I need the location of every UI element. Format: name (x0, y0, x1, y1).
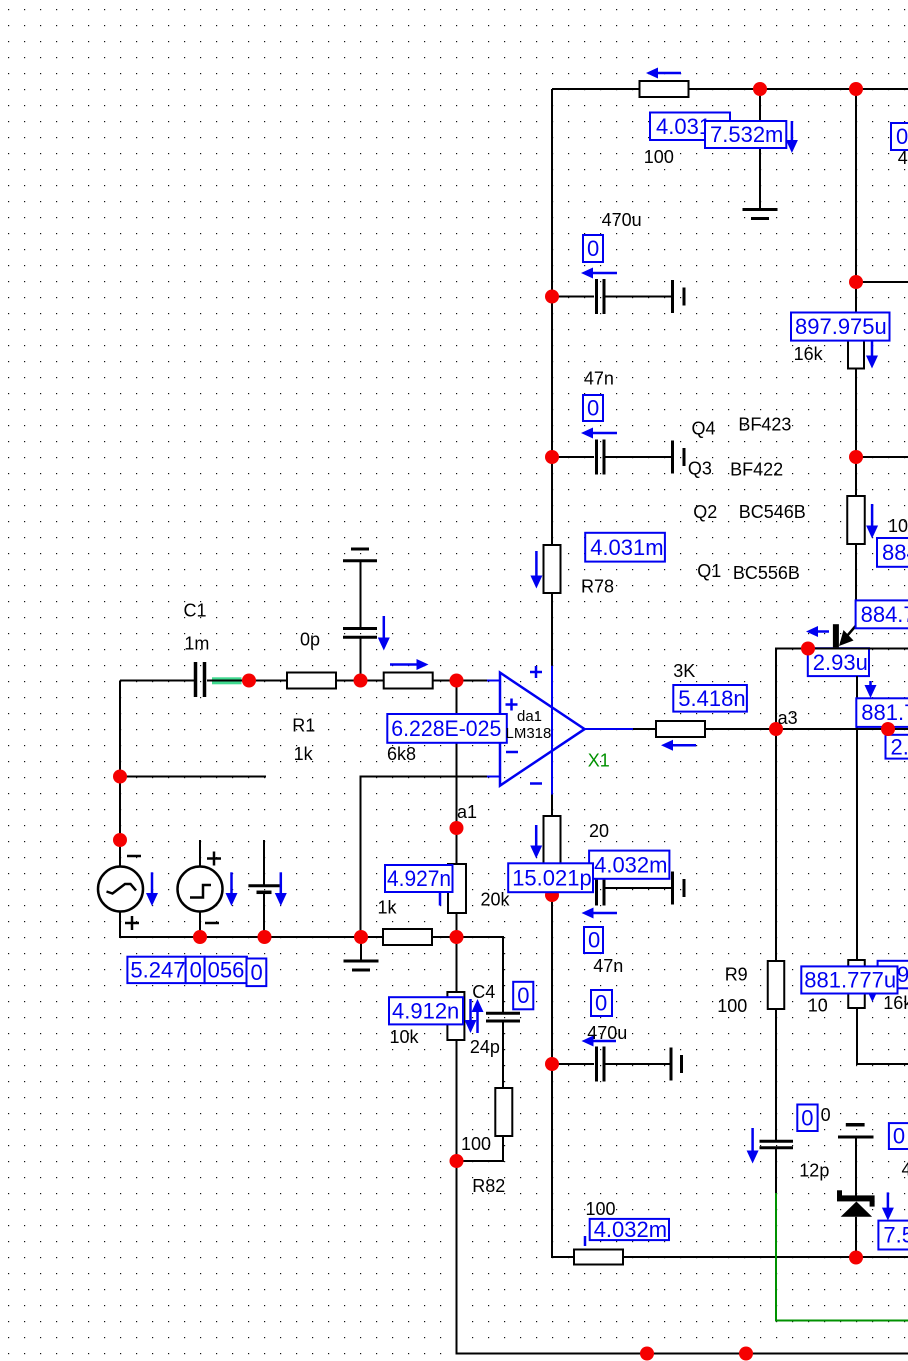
current arrow (zener) (882, 1192, 894, 1220)
value box 884.7 (856, 600, 908, 628)
capacitor C9 12p (760, 1141, 794, 1148)
svg-text:3K: 3K (673, 661, 695, 681)
value box 897.975u (791, 313, 890, 341)
wire top rail (552, 88, 908, 90)
value box 5.418n (673, 685, 747, 712)
wire step source bottom (199, 911, 201, 937)
capacitor C10 47u (right) (838, 1125, 874, 1196)
svg-text:6k8: 6k8 (387, 744, 416, 764)
wire inverting input row (361, 777, 488, 938)
current marker (4.927n) (439, 893, 442, 906)
value box 0 (V2) (186, 957, 205, 983)
svg-text:BF422: BF422 (730, 460, 783, 480)
svg-text:4.912n: 4.912n (392, 998, 459, 1023)
junction (647,1353) (640, 1347, 654, 1361)
wire 0p cap to input row (360, 639, 362, 681)
svg-text:1k: 1k (294, 744, 314, 764)
svg-text:X1: X1 (588, 751, 610, 771)
current arrow (V2) (226, 872, 238, 906)
wire middle column R78 to op-amp (551, 593, 553, 666)
current arrow (R78) (530, 551, 542, 589)
junction node 47n lower (under box) (545, 888, 559, 902)
wire node a to R1 (249, 680, 287, 682)
source V1 sine (98, 856, 143, 930)
wire R9 to 12p cap (775, 1008, 777, 1140)
value box 6.228E-025 (387, 714, 507, 743)
wire 6k8 to op-amp noninverting input (433, 680, 487, 682)
svg-text:881.777u: 881.777u (804, 968, 896, 993)
svg-text:R78: R78 (581, 577, 614, 597)
svg-text:16k: 16k (883, 993, 908, 1013)
wire C1 to node a (207, 680, 249, 682)
current arrow (top 100 resistor) (646, 68, 681, 79)
svg-text:47n: 47n (584, 369, 614, 389)
value box 4.032m (bottom) (590, 1217, 669, 1242)
svg-text:6.228E-025: 6.228E-025 (391, 716, 501, 741)
value box 0 (47n upper) (583, 395, 603, 421)
wire middle column to bottom resistor (552, 1064, 574, 1257)
wire step source stub top (199, 840, 201, 866)
junction (200,937) (193, 930, 207, 944)
current arrow (16k right) (866, 341, 878, 369)
svg-text:897.975u: 897.975u (795, 314, 887, 339)
current arrow (7.532m) (786, 121, 798, 153)
resistor R4 3K (656, 721, 705, 737)
svg-text:R82: R82 (472, 1176, 505, 1196)
value box 0 (V3) (247, 959, 267, 987)
wire battery bottom (263, 893, 265, 937)
svg-text:0: 0 (893, 1124, 905, 1149)
svg-text:12p: 12p (799, 1161, 829, 1181)
svg-text:100: 100 (586, 1199, 616, 1219)
junction (856,89) (849, 82, 863, 96)
wire 10k to bottom rail (457, 1040, 908, 1354)
junction (457,1161) (450, 1154, 464, 1168)
svg-text:881.77: 881.77 (861, 700, 908, 725)
svg-text:100: 100 (717, 996, 747, 1016)
svg-text:0: 0 (517, 983, 529, 1008)
value box 0 (top right) (891, 123, 908, 150)
transistor Q1 BC556B (symbol) (833, 624, 856, 647)
svg-text:R9: R9 (725, 965, 748, 985)
value box 0 (47u right) (889, 1123, 908, 1149)
svg-text:Q4: Q4 (692, 419, 716, 439)
junction node 470u upper (545, 290, 559, 304)
current arrow (V3) (275, 872, 287, 906)
ground (top) (743, 210, 778, 219)
wire a1 column to 10k (456, 937, 458, 992)
svg-text:0: 0 (190, 958, 202, 983)
ground (bottom) (344, 961, 379, 970)
svg-text:R1: R1 (292, 716, 315, 736)
svg-text:7.532m: 7.532m (710, 122, 783, 147)
svg-text:0: 0 (587, 396, 599, 421)
svg-text:056: 056 (208, 958, 245, 983)
wire a3 column to R9 (775, 729, 777, 961)
junction node b (354, 674, 368, 688)
svg-text:884.7: 884.7 (882, 540, 908, 565)
wire ground branch top (x=760) (759, 89, 761, 209)
wire right column below 10R to transistor (855, 543, 857, 626)
svg-text:0: 0 (587, 236, 599, 261)
junction (265,937) (258, 930, 272, 944)
svg-text:4.927n: 4.927n (387, 866, 451, 891)
svg-text:C4: C4 (472, 982, 495, 1002)
capacitor C4 24p (486, 1013, 520, 1021)
resistor R5 100 (bottom) (574, 1250, 623, 1265)
value box 7.5 (zener) (878, 1221, 908, 1250)
svg-text:1m: 1m (184, 634, 209, 654)
resistor R8 10k (447, 992, 464, 1040)
junction node a (242, 674, 256, 688)
svg-text:da1: da1 (517, 708, 542, 725)
wire middle column upper (x=552) (551, 89, 553, 545)
current arrow (6k8) (390, 659, 429, 670)
current arrow (881.7) (865, 681, 877, 698)
op-amp X1 M318 (487, 666, 633, 795)
wire right branch y=282 (856, 281, 908, 283)
svg-text:93: 93 (897, 962, 908, 987)
current arrow (C4 down) (465, 999, 477, 1033)
svg-text:20: 20 (589, 821, 609, 841)
svg-text:4.031: 4.031 (656, 114, 711, 139)
current arrow (10 right) (866, 504, 878, 539)
svg-text:1k: 1k (378, 898, 398, 918)
svg-text:20k: 20k (481, 890, 511, 910)
resistor R78 20 (upper) (544, 545, 561, 593)
wire right branch y=457 (856, 456, 908, 458)
wire op-amp output row (633, 728, 908, 730)
junction (856,282) (849, 275, 863, 289)
svg-text:0: 0 (821, 1105, 831, 1125)
svg-text:15.021p: 15.021p (512, 865, 592, 890)
value box 4.032m (47n lower) (589, 851, 669, 879)
diode D1 zener (837, 1190, 875, 1257)
svg-text:BC556B: BC556B (733, 563, 800, 583)
junction (856,457) (849, 450, 863, 464)
svg-text:16k: 16k (794, 344, 824, 364)
wire a3 column top corner (776, 649, 908, 730)
junction (120,776) (113, 770, 127, 784)
value box 0 (12p) (797, 1105, 817, 1132)
svg-text:Q3: Q3 (688, 459, 712, 479)
resistor R80 20 (544, 816, 561, 867)
svg-text:0: 0 (595, 991, 607, 1016)
current arrow (R80) (530, 825, 542, 859)
junction (808,648) (801, 642, 815, 656)
svg-text:47n: 47n (593, 956, 623, 976)
current arrow (C4 up) (472, 999, 484, 1033)
svg-text:0p: 0p (300, 630, 320, 650)
source V2 step (178, 852, 223, 924)
wire left column (x=120) (119, 681, 121, 867)
current arrow (470u lower) (582, 1036, 617, 1047)
capacitor C1 (196, 662, 205, 697)
svg-text:7.53: 7.53 (883, 1223, 908, 1248)
wire sine source bottom (120, 911, 503, 937)
current arrow (transistor base) (806, 626, 829, 637)
wire open stub from left node (120, 776, 266, 778)
node a1 junction (450, 821, 464, 835)
junction (746,1353) (739, 1347, 753, 1361)
svg-text:C1: C1 (184, 601, 207, 621)
wire a1 column below 20k (456, 913, 458, 937)
capacitor C5 470u (upper) (552, 279, 684, 314)
value box 0 (C4) (513, 982, 533, 1010)
svg-text:4.032m: 4.032m (594, 852, 667, 877)
junction (760,89) (753, 82, 767, 96)
wire right column 16k to 10R (855, 369, 857, 497)
svg-text:0: 0 (588, 928, 600, 953)
wire C4 to R82 (502, 1022, 504, 1089)
value box 4.912n (389, 997, 463, 1024)
value box 0 (470u lower) (591, 990, 612, 1016)
wire R82 to a1 column (457, 1136, 504, 1161)
svg-text:5.418n: 5.418n (678, 686, 745, 711)
svg-text:4.032m: 4.032m (594, 1217, 667, 1242)
resistor R11 10 (right) (847, 496, 865, 544)
resistor R7 20k (448, 864, 466, 913)
value box 4.927n (385, 865, 453, 892)
svg-text:BC546B: BC546B (739, 502, 806, 522)
svg-text:24p: 24p (470, 1037, 500, 1057)
junction node 47n upper (545, 450, 559, 464)
resistor R6 1k (feedback bottom) (383, 929, 432, 945)
junction (888,729) (881, 722, 895, 736)
wire right column upper (x=856) (855, 89, 857, 321)
svg-text:a3: a3 (778, 708, 798, 728)
junction zener-output (849, 1251, 863, 1265)
svg-text:470u: 470u (587, 1023, 627, 1043)
resistor R1 1k (287, 673, 336, 689)
resistor R82 100 (495, 1088, 512, 1136)
wire middle column below R80 (551, 867, 553, 1064)
value box 4.031 (650, 113, 730, 141)
svg-text:Q2: Q2 (693, 502, 717, 522)
wire input row left segment (120, 680, 194, 682)
value box 884 (right mid) (877, 538, 908, 567)
svg-text:100: 100 (888, 516, 908, 536)
capacitor C8 470u (lower) (552, 1047, 682, 1082)
wire right column below 16k2 to corner (857, 1008, 908, 1064)
junction (361,937) (354, 930, 368, 944)
current arrow (3K) (661, 740, 696, 751)
value box 056 (205, 957, 247, 983)
svg-text:BF423: BF423 (738, 415, 791, 435)
svg-text:LM318: LM318 (506, 725, 552, 742)
svg-text:470u: 470u (602, 210, 642, 230)
resistor R12 16k (right bottom) (848, 960, 865, 1008)
capacitor C2 0p with battery (343, 549, 377, 637)
wire green net (776, 1193, 908, 1321)
current arrow (12p) (747, 1128, 759, 1164)
wire middle column op-amp to R80 (551, 794, 553, 816)
svg-text:10: 10 (808, 996, 828, 1016)
current arrow (470u upper) (581, 268, 617, 279)
value box 2.9 (right) (886, 734, 908, 759)
svg-text:Q1: Q1 (697, 561, 721, 581)
wire bottom output row y=1257 (623, 1256, 908, 1258)
junction (120,840) (113, 833, 127, 847)
current marker (4.032m bottom) (584, 1236, 587, 1246)
wire a1 column (456, 681, 458, 865)
value box 93 (behind 881.777u) (878, 961, 908, 989)
svg-text:10k: 10k (390, 1027, 420, 1047)
wire right column below 2.93u box (856, 676, 858, 960)
wire C4 branch (457, 937, 504, 1012)
source V3 battery (248, 886, 279, 893)
svg-text:4.031m: 4.031m (590, 535, 663, 560)
capacitor C7 47n (lower) (552, 871, 684, 906)
svg-text:5.247: 5.247 (130, 958, 185, 983)
value box 2.93u (808, 648, 869, 676)
wire battery stub top (263, 840, 265, 885)
value box 881.777u (801, 966, 897, 993)
value box 4.031m (585, 533, 665, 562)
current arrow (V1) (146, 872, 158, 906)
wire 12p cap to green net (775, 1149, 777, 1193)
svg-text:0: 0 (801, 1105, 813, 1130)
svg-text:0: 0 (251, 960, 263, 985)
resistor R3 100 (top) (640, 81, 689, 97)
junction (457,937) (450, 930, 464, 944)
resistor R9 100 (768, 961, 785, 1009)
junction node plus-input (450, 674, 464, 688)
svg-text:2.93: 2.93 (891, 734, 908, 759)
svg-text:a1: a1 (457, 802, 477, 822)
svg-text:100: 100 (461, 1134, 491, 1154)
wire R1 to 6k8 (336, 680, 384, 682)
value box 0 (47n lower) (584, 927, 603, 953)
wire 0p branch vertical (360, 561, 362, 627)
wire ground branch bottom (360, 937, 362, 960)
svg-text:0: 0 (896, 124, 908, 149)
capacitor C6 47n (upper) (552, 440, 684, 475)
current arrow (47n lower) (582, 908, 618, 919)
value box 881.7 (right) (856, 698, 908, 727)
resistor R2 6k8 (384, 673, 433, 689)
svg-text:100: 100 (644, 147, 674, 167)
svg-text:47u: 47u (902, 1160, 908, 1180)
svg-text:2.93u: 2.93u (813, 650, 868, 675)
wire highlight (green selected segment) (207, 677, 249, 684)
current arrow (47n upper) (581, 428, 617, 439)
value box 7.532m (705, 121, 786, 148)
value box 5.247 (127, 957, 185, 983)
resistor R10 16k (right top) (848, 321, 864, 369)
junction node 470u lower (545, 1057, 559, 1071)
svg-text:47: 47 (898, 148, 908, 168)
value box 0 (470u upper) (583, 235, 603, 262)
current arrow (0p cap) (378, 616, 390, 651)
node a3 junction (769, 722, 783, 736)
svg-text:884.7: 884.7 (861, 602, 908, 627)
current arrow small (881.777u) (867, 990, 878, 1002)
value box 15.021p (508, 863, 593, 892)
